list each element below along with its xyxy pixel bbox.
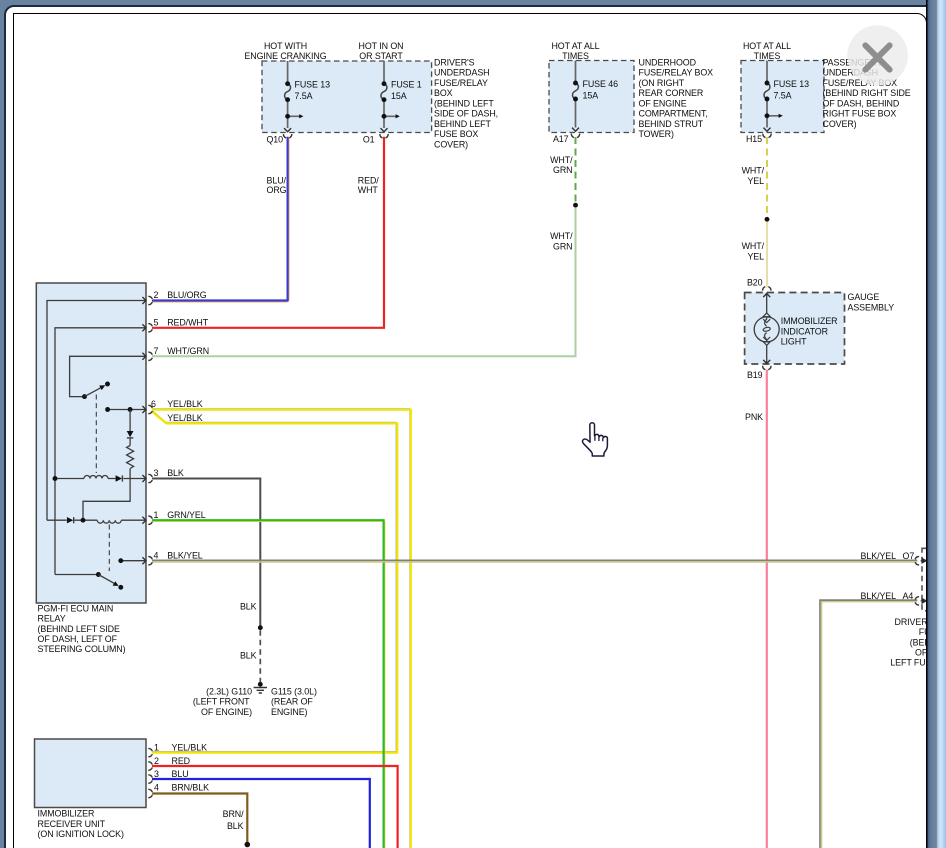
wire WHT/GRN solid segment to relay pin 7 bbox=[152, 208, 576, 356]
arrow up at gauge top edge bbox=[763, 294, 770, 298]
wire WHT/GRN dashed segment from A17 bbox=[575, 137, 577, 204]
relay pin 1 arrow bbox=[142, 517, 146, 524]
junction pin5-line to coil1 bbox=[53, 476, 58, 481]
relay pin 6 connector bbox=[148, 405, 152, 413]
annotation PGM-FI ECU main relay bbox=[38, 603, 126, 654]
wire WHT/YEL dashed segment from H15 bbox=[766, 137, 768, 218]
relay pin 7 arrow bbox=[142, 353, 146, 360]
relay coil L1 (bumps up) bbox=[84, 476, 108, 479]
right steel-blue gradient band bbox=[926, 0, 946, 848]
wire BLK dashed segment to ground bbox=[259, 630, 261, 682]
fuse 13 symbol bbox=[285, 84, 291, 100]
wire YEL/BLK 1 from relay pin 6 (black stripe) bbox=[152, 409, 410, 848]
wire RED/WHT from O1 to relay pin 5 bbox=[152, 137, 384, 328]
wire BLK/YEL from relay pin 4 to O7 (grey) bbox=[152, 559, 917, 561]
wire BLK/YEL A4 (grey) bbox=[820, 600, 917, 848]
relay switch 1 contact bbox=[105, 382, 110, 387]
relay pin 2 internal wire bbox=[47, 301, 146, 521]
down arrow into A17 bbox=[572, 128, 579, 132]
wire GRN/YEL from relay pin 1 (yellow stripe) bbox=[152, 521, 385, 848]
relay pin 5 connector bbox=[148, 324, 152, 332]
relay pin 1 internal wire bbox=[47, 519, 146, 521]
ground label G115 bbox=[271, 686, 317, 717]
relay pin 5 internal wire bbox=[55, 328, 146, 575]
hollow triangle arrow above lamp bbox=[763, 313, 770, 317]
window chrome: top steel-blue band bbox=[0, 0, 946, 5]
wire BLK/YEL A4 yellow stripe bbox=[822, 602, 918, 848]
connector B19 bbox=[763, 366, 771, 370]
close button bbox=[847, 25, 908, 86]
receiver pin 4 connector bbox=[148, 789, 152, 797]
fuse 1 (15A) feed wire bbox=[384, 61, 396, 128]
junction WHT/GRN bbox=[573, 203, 578, 208]
connector O7 bbox=[915, 557, 919, 565]
lamp filament bbox=[765, 317, 767, 342]
driver's underdash fuse box (right edge, clipped) bbox=[922, 548, 946, 611]
relay pin 4 node bbox=[118, 558, 123, 563]
wire YEL/BLK 1 yellow bbox=[152, 410, 411, 848]
diode D3 (pointing right) in pin 1 line bbox=[67, 517, 73, 523]
arrow down at gauge bottom edge bbox=[763, 360, 770, 364]
ground label G110 bbox=[193, 686, 252, 717]
resistor R1 (zigzag) bbox=[127, 446, 134, 469]
relay pin 6 junction to diode branch bbox=[128, 407, 133, 412]
connector Q10 bbox=[283, 134, 291, 138]
relay pin 1 connector bbox=[148, 516, 152, 524]
junction BLK splice bbox=[258, 625, 263, 630]
wire PNK from B19 to bottom bbox=[766, 370, 768, 848]
relay pin 3 internal wire (coil feed) bbox=[55, 478, 146, 480]
immobilizer indicator light lamp bbox=[754, 317, 779, 342]
branch junction + arrow (fuse 1) bbox=[382, 114, 387, 119]
fuse 13 (7.5A) feed wire inside driver's box bbox=[288, 61, 300, 128]
arrow chevron inside lamp bottom bbox=[763, 337, 770, 340]
relay pin 5 arrow bbox=[142, 324, 146, 331]
receiver pin 3 connector bbox=[148, 775, 152, 783]
receiver pin 1 connector bbox=[148, 748, 152, 756]
fuse 46 (15A) feed wire inside underhood box bbox=[575, 61, 577, 128]
relay switch 2 pivot bbox=[96, 572, 101, 577]
wire YEL/BLK 2 from relay pin 6 to receiver pin 1 (black stripe) bbox=[152, 411, 396, 752]
relay pin 4 internal wire bbox=[121, 560, 146, 562]
wire BLK/YEL yellow stripe bbox=[152, 561, 917, 563]
relay pin 6 internal wire bbox=[108, 409, 146, 411]
connector A17 bbox=[571, 134, 579, 138]
relay pin 3 connector bbox=[148, 474, 152, 482]
mechanical link switch1-coil1 (dashed) bbox=[95, 395, 97, 474]
arrow into right box at O7 bbox=[921, 558, 927, 563]
diode D1 (pointing down) bbox=[127, 431, 134, 437]
relay pin 7 internal wire bbox=[70, 356, 146, 396]
receiver pin 2 connector bbox=[148, 762, 152, 770]
ground G110/G115 bbox=[254, 688, 267, 694]
arrow chevron inside lamp top bbox=[763, 319, 770, 322]
annotation driver's fuse box (right, clipped) bbox=[890, 617, 946, 668]
annotation immobilizer receiver unit bbox=[38, 809, 124, 839]
fuse 13 passenger box feed wire bbox=[767, 61, 779, 128]
diode D2 (pointing right) in pin 3 line bbox=[116, 475, 122, 481]
connector B20 bbox=[763, 287, 771, 291]
junction diode branch / coil 2 bbox=[81, 518, 86, 523]
relay pin 3 arrow bbox=[142, 475, 146, 482]
relay switch 1 blade with arrow bbox=[85, 387, 103, 397]
relay pin 2 connector bbox=[148, 296, 152, 304]
junction at ground bbox=[258, 682, 263, 687]
annotation passenger box bbox=[823, 57, 911, 129]
fuse 46 symbol bbox=[572, 83, 578, 99]
diode branch wire bbox=[83, 410, 130, 521]
junction BRN/BLK bottom splice bbox=[245, 842, 251, 848]
relay pin 4 connector bbox=[148, 557, 152, 565]
immobilizer receiver unit box bbox=[35, 739, 147, 808]
relay pin 4 arrow bbox=[142, 557, 146, 564]
relay switch 2 contact bbox=[118, 585, 123, 590]
PGM-FI ECU main relay box bbox=[36, 283, 146, 603]
branch junction + arrow (passenger fuse 13) bbox=[765, 113, 770, 118]
wire BRN/BLK from receiver pin 4 bbox=[152, 794, 247, 844]
relay pin 6 wire end node bbox=[105, 407, 110, 412]
wire BLU/ORG from Q10 to relay pin 2 (orange stripe) bbox=[152, 138, 289, 302]
relay pin 2 arrow bbox=[142, 297, 146, 304]
relay pin 7 connector bbox=[148, 352, 152, 360]
junction WHT/YEL bbox=[765, 217, 770, 222]
connector O1 bbox=[380, 134, 388, 138]
relay coil L2 (bumps down) bbox=[97, 520, 121, 523]
gauge assembly box bbox=[745, 293, 845, 365]
mouse cursor (hand pointer) bbox=[582, 423, 607, 456]
fuse 13 symbol (passenger) bbox=[764, 83, 770, 99]
wire GRN/YEL green bbox=[152, 520, 384, 848]
down arrow into O1 bbox=[381, 128, 388, 132]
passenger's underdash fuse/relay box bbox=[741, 61, 824, 133]
relay pin 6 arrow bbox=[142, 406, 146, 413]
down arrow into H15 bbox=[764, 128, 771, 132]
underhood fuse/relay box bbox=[549, 61, 634, 133]
hollow triangle arrow below lamp bbox=[763, 342, 770, 346]
fuse 1 symbol bbox=[381, 84, 387, 100]
arrow into right box at A4 bbox=[921, 599, 927, 604]
mechanical link coil2-switch2 (dashed) bbox=[108, 525, 110, 572]
wire YEL/BLK 2 yellow bbox=[152, 412, 397, 753]
annotation underhood box bbox=[639, 57, 714, 139]
driver's underdash fuse/relay box bbox=[262, 61, 432, 133]
branch junction + arrow (fuse 13) bbox=[285, 114, 290, 119]
down arrow into Q10 bbox=[284, 128, 291, 132]
relay switch 2 feed bbox=[55, 574, 98, 576]
wire BLU from receiver pin 3 bbox=[152, 779, 370, 848]
relay switch 1 common bbox=[82, 394, 87, 399]
window chrome: left steel-blue band bbox=[0, 0, 4, 848]
connector A4 bbox=[915, 597, 919, 605]
wire BLU/ORG blue bbox=[152, 137, 288, 301]
annotation driver's underdash box bbox=[434, 57, 498, 149]
corner blue patch bbox=[0, 0, 16, 17]
connector H15 bbox=[763, 134, 771, 138]
wire BLK from relay pin 3 bbox=[152, 479, 260, 628]
wire RED from receiver pin 2 bbox=[152, 766, 398, 848]
gauge assembly internal wire bbox=[766, 293, 768, 365]
relay switch 2 blade with arrow bbox=[98, 575, 116, 585]
wire WHT/YEL solid segment to B20 bbox=[766, 222, 768, 287]
